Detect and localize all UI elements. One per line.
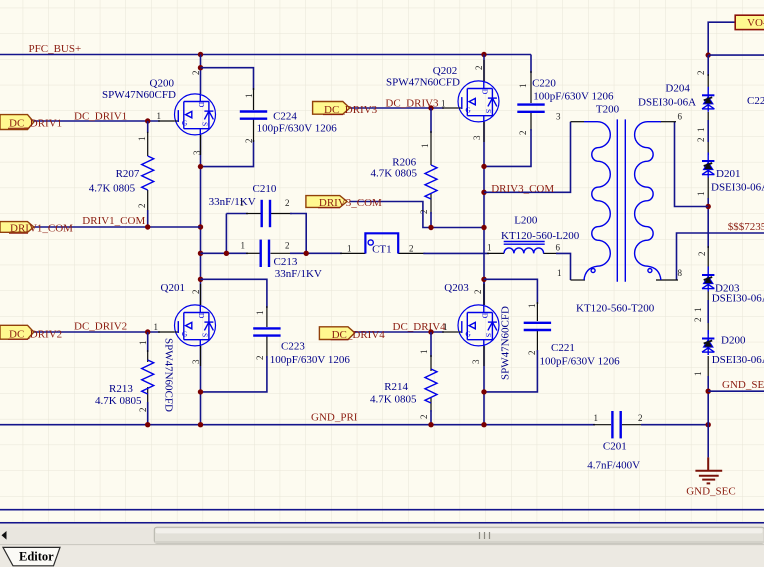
pin R207.2 lead (147, 190, 149, 212)
wire C221 top branch (484, 279, 537, 304)
pin D203.1 / D200.2 leads (707, 291, 709, 334)
wire R214 top stub (430, 332, 432, 357)
wire Q203 drain column (483, 279, 485, 305)
pin C224.2 lead (253, 119, 255, 142)
T200 primary polarity dot (591, 269, 595, 273)
svg-text:L200: L200 (514, 215, 538, 227)
svg-text:1: 1 (696, 192, 706, 197)
svg-text:2: 2 (696, 71, 706, 76)
svg-text:2: 2 (244, 139, 254, 144)
svg-text:DSEI30-06A: DSEI30-06A (712, 354, 764, 366)
wire VO- port link (708, 22, 735, 55)
pin T200.3 lead (571, 121, 585, 123)
pin R207.1 lead (147, 132, 149, 156)
svg-text:2: 2 (191, 71, 201, 76)
svg-text:1: 1 (441, 99, 446, 109)
svg-text:1: 1 (137, 137, 147, 142)
svg-text:1: 1 (420, 144, 430, 149)
resistor R213 (95, 341, 154, 413)
pin R213.1 lead (147, 350, 149, 362)
wire L200 to T200 pin1 (556, 253, 571, 280)
svg-text:DRIV3_COM: DRIV3_COM (491, 183, 554, 195)
wire DC_DRIV2 from port to gate (34, 331, 161, 333)
svg-text:2: 2 (518, 131, 528, 136)
svg-text:2: 2 (473, 290, 483, 295)
svg-text:DSEI30-06A: DSEI30-06A (638, 97, 696, 109)
wire C210 row (226, 213, 248, 215)
svg-text:3: 3 (556, 112, 561, 122)
wire D200 to GND_SEC (707, 376, 709, 457)
svg-text:2: 2 (285, 241, 290, 251)
svg-text:DC_DRIV1: DC_DRIV1 (9, 118, 62, 130)
pin C223.1 lead (266, 306, 268, 327)
pin D201.1 lead (707, 177, 709, 200)
svg-text:C224: C224 (273, 111, 297, 123)
svg-text:1: 1 (594, 413, 599, 423)
svg-text:1: 1 (557, 268, 562, 278)
junction midpoint / DRIV1_COM (198, 224, 203, 229)
svg-text:3: 3 (191, 359, 201, 364)
svg-text:3: 3 (192, 150, 202, 155)
wire CT1 to L200 (423, 252, 489, 254)
wire Q200 source to midpoint column (200, 134, 202, 279)
inductor L200 (487, 215, 580, 254)
svg-text:6: 6 (556, 243, 561, 253)
pin C213.1 lead (246, 252, 260, 254)
svg-text:C223: C223 (281, 341, 305, 353)
wire R206 bottom stub (430, 212, 432, 228)
pin Q202.G lead (442, 107, 458, 109)
svg-text:100pF/630V 1206: 100pF/630V 1206 (533, 90, 614, 102)
wire R207 top stub (147, 121, 149, 133)
svg-text:DRIV1_COM: DRIV1_COM (10, 223, 73, 235)
wire $$$ net from T200.8 (677, 233, 764, 280)
pin CT1.1 lead (340, 252, 365, 254)
sheet bottom border (0, 510, 764, 567)
junction C213 / C210 right (304, 251, 309, 256)
svg-text:DC_DRIV4: DC_DRIV4 (332, 329, 386, 341)
pin Q201.2 lead (200, 284, 202, 305)
pin R213.2 lead (147, 387, 149, 404)
pin Q203.2 lead (483, 284, 485, 305)
svg-text:Q201: Q201 (161, 282, 185, 294)
svg-text:100pF/630V 1206: 100pF/630V 1206 (270, 354, 351, 366)
svg-text:T200: T200 (596, 104, 620, 116)
svg-text:DSEI30-06A: DSEI30-06A (712, 292, 764, 304)
junction Q200 drain / C224 branch (198, 65, 203, 70)
junction PFC_BUS+/Q200 drain (198, 52, 203, 57)
pin T200.8 lead (656, 279, 678, 281)
wire C224 bottom branch (201, 140, 254, 167)
svg-text:DRIV3_COM: DRIV3_COM (319, 197, 382, 209)
wire Q201 source column (200, 346, 202, 425)
wire DC_DRIV4 from port to gate (355, 331, 444, 333)
svg-text:6: 6 (678, 112, 683, 122)
svg-text:DRIV1_COM: DRIV1_COM (82, 215, 145, 227)
ground GND_SEC symbol (686, 457, 736, 497)
junction GND_SEC / right label wire (706, 389, 711, 394)
svg-text:33nF/1KV: 33nF/1KV (209, 196, 256, 208)
port DRIV1_COM (0, 222, 73, 235)
wire R213 top stub (147, 332, 149, 352)
svg-text:33nF/1KV: 33nF/1KV (275, 268, 322, 280)
pin T200.6 lead (660, 121, 676, 123)
capacitor C224 (240, 94, 337, 144)
wire diode string upper (707, 55, 709, 76)
svg-text:D204: D204 (665, 83, 690, 95)
pin C224.1 lead (253, 88, 255, 110)
svg-text:2: 2 (138, 408, 148, 413)
svg-text:DC_DRIV4: DC_DRIV4 (393, 321, 447, 333)
pin C210.1 lead (246, 213, 261, 215)
diode D203 (702, 267, 764, 305)
junction DC_DRIV4 / R214 (428, 329, 433, 334)
diode D200 (702, 330, 764, 366)
svg-text:PFC_BUS+: PFC_BUS+ (29, 43, 82, 55)
port DRIV3_COM (306, 196, 382, 209)
capacitor C223 (253, 311, 350, 367)
svg-text:KT120-560-L200: KT120-560-L200 (501, 230, 580, 242)
pin D203.2 lead (707, 246, 709, 270)
pin L200.1 lead (487, 252, 504, 254)
resistor R207 (89, 137, 154, 209)
wire T200.6 link (675, 122, 709, 207)
wire DC_DRIV1 from port to gate (34, 120, 161, 122)
wire R206 top stub (430, 108, 432, 133)
port DC_DRIV3 (313, 102, 378, 116)
wire GND_SEC label run (708, 390, 764, 392)
svg-text:2: 2 (638, 413, 643, 423)
capacitor C213 (241, 240, 322, 280)
svg-text:Q200: Q200 (150, 78, 175, 90)
port DC_DRIV2 (0, 325, 62, 340)
pin C210.2 lead (271, 213, 292, 215)
svg-text:1: 1 (527, 304, 537, 309)
wire C210 left lead down (225, 214, 227, 254)
pin Q203.G lead (442, 331, 458, 333)
wire R213 bottom stub (147, 402, 149, 425)
svg-text:3: 3 (472, 135, 482, 140)
Editor tab (3, 547, 60, 565)
diode D201 (702, 153, 764, 194)
pin R206.2 lead (430, 193, 432, 214)
svg-text:2: 2 (419, 415, 429, 420)
svg-text:2: 2 (527, 351, 537, 356)
pin R214.1 lead (430, 355, 432, 371)
svg-text:1: 1 (693, 372, 703, 377)
svg-text:R214: R214 (384, 381, 408, 393)
svg-text:2: 2 (696, 138, 706, 143)
resistor R206 (371, 144, 438, 215)
wire C224 top branch (201, 68, 254, 90)
wire Q201 drain column (200, 279, 202, 305)
svg-text:3: 3 (471, 359, 481, 364)
junction GND_PRI / Q201 (198, 422, 203, 427)
svg-text:2: 2 (285, 198, 290, 208)
wire R214 bottom stub (430, 410, 432, 425)
svg-text:SPW47N60CFD: SPW47N60CFD (102, 89, 176, 101)
wire GND_PRI row (0, 424, 595, 426)
svg-text:VO-: VO- (747, 17, 764, 29)
svg-text:2: 2 (474, 66, 484, 71)
wire DRIV1_COM row (34, 226, 201, 228)
svg-text:DC_DRIV2: DC_DRIV2 (9, 329, 62, 341)
svg-text:1: 1 (255, 311, 265, 316)
pin Q202.3 lead (483, 122, 485, 142)
transistor Q200 (102, 71, 216, 156)
pin L200.6 lead (543, 252, 558, 254)
svg-text:1: 1 (154, 322, 159, 332)
svg-text:DSEI30-06A: DSEI30-06A (711, 182, 764, 194)
wire C213 row (201, 252, 249, 254)
svg-text:C213: C213 (274, 256, 298, 268)
junction DRIV1_COM / R207 (145, 224, 150, 229)
junction GND_PRI / R214 (428, 422, 433, 427)
svg-text:4.7K 0805: 4.7K 0805 (89, 183, 136, 195)
wire DRIV3_COM to T200 pin3 (484, 122, 571, 193)
pin Q200.G lead (158, 120, 175, 122)
svg-text:1: 1 (138, 341, 148, 346)
svg-text:C221: C221 (551, 342, 575, 354)
port VO- (735, 15, 764, 29)
svg-text:DC_DRIV1: DC_DRIV1 (74, 111, 127, 123)
svg-text:GND_PRI: GND_PRI (311, 412, 358, 424)
svg-text:2: 2 (419, 210, 429, 215)
svg-text:1: 1 (443, 322, 448, 332)
T200 secondary winding (635, 122, 661, 280)
port DC_DRIV1 (0, 115, 62, 130)
capacitor C221 (524, 304, 620, 368)
capacitor C210 (209, 183, 290, 227)
svg-text:D200: D200 (721, 335, 746, 347)
svg-text:CT1: CT1 (372, 244, 392, 256)
svg-text:C220: C220 (532, 78, 556, 90)
junction DRIV3_COM / R206 bottom (428, 225, 433, 230)
pin C221.2 lead (536, 331, 538, 352)
wire C223 top branch (201, 279, 267, 308)
svg-text:SPW47N60CFD: SPW47N60CFD (500, 306, 512, 380)
junction DC_DRIV3 / R206 (428, 105, 433, 110)
wire between D203 and D200 (707, 300, 709, 323)
svg-text:1: 1 (347, 244, 352, 254)
wire C220 top lead from bus (530, 55, 532, 74)
pin C220.1 lead (530, 71, 532, 103)
capacitor C201 (587, 411, 642, 472)
wire Q203 source column (483, 346, 485, 425)
wire Q202 drain column (483, 55, 485, 82)
svg-text:2: 2 (137, 204, 147, 209)
transformer T200 (556, 104, 683, 315)
svg-text:1: 1 (518, 84, 528, 89)
svg-text:4.7K 0805: 4.7K 0805 (371, 168, 418, 180)
wire PFC_BUS+ horizontal bus (0, 54, 531, 56)
svg-text:1: 1 (696, 128, 706, 133)
pin CT1.2 lead (398, 252, 425, 254)
junction C213 / C210 left (224, 251, 229, 256)
pin Q201.G lead (158, 331, 175, 333)
junction Q203 source / C221 (481, 389, 486, 394)
svg-text:100pF/630V 1206: 100pF/630V 1206 (540, 356, 621, 368)
svg-text:Q202: Q202 (433, 65, 457, 77)
svg-text:1: 1 (487, 243, 492, 253)
pin C221.1 lead (536, 302, 538, 321)
svg-text:4.7K 0805: 4.7K 0805 (370, 394, 417, 406)
wire C201 to GND_SEC column (641, 424, 708, 426)
svg-text:KT120-560-T200: KT120-560-T200 (576, 303, 655, 315)
svg-text:R213: R213 (109, 383, 133, 395)
capacitor C220 (517, 78, 614, 135)
pin Q203.3 lead (483, 346, 485, 366)
svg-text:1: 1 (693, 308, 703, 313)
svg-text:C22: C22 (747, 95, 764, 107)
svg-text:4.7nF/400V: 4.7nF/400V (587, 460, 640, 472)
T200 core (616, 119, 618, 281)
pin C201.2 lead (622, 424, 643, 426)
svg-text:1: 1 (240, 198, 245, 208)
pin D200.1 lead (707, 356, 709, 378)
svg-text:DC_DRIV2: DC_DRIV2 (74, 321, 127, 333)
svg-text:2: 2 (191, 290, 201, 295)
junction Q201 source / C223 (198, 389, 203, 394)
pin C223.2 lead (266, 336, 268, 358)
junction Q200 source / C224 (198, 164, 203, 169)
pin R206.1 lead (430, 131, 432, 165)
svg-text:R207: R207 (116, 168, 140, 180)
wire node A to T200.6 (707, 198, 709, 248)
svg-text:C210: C210 (253, 183, 277, 195)
svg-text:DC_DRIV3: DC_DRIV3 (385, 98, 439, 110)
pin D204.1 / D201.2 leads (707, 112, 709, 155)
svg-text:8: 8 (678, 268, 683, 278)
svg-text:1: 1 (157, 111, 162, 121)
wire C221 bottom branch (484, 350, 537, 392)
svg-text:2: 2 (255, 356, 265, 361)
junction Q201 drain / C223 branch (198, 277, 203, 282)
pin Q200.3 lead (200, 135, 202, 155)
horizontal scrollbar (0, 527, 764, 544)
pin T200.1 lead (571, 279, 586, 281)
wire C210 right lead (290, 214, 306, 254)
svg-text:1: 1 (244, 94, 254, 99)
junction VO- node (706, 52, 711, 57)
junction GND_PRI / Q203 (481, 422, 486, 427)
transistor Q201 (161, 282, 216, 412)
svg-text:2: 2 (697, 252, 707, 257)
svg-text:4.7K 0805: 4.7K 0805 (95, 395, 142, 407)
wire DC_DRIV3 from port to gate (350, 107, 444, 109)
junction PFC_BUS+/Q202 drain (481, 52, 486, 57)
pin D204.2 lead (707, 74, 709, 90)
pin Q201.3 lead (200, 346, 202, 366)
pin C220.2 lead (530, 112, 532, 131)
svg-text:2: 2 (693, 318, 703, 323)
pin Q202.2 lead (483, 60, 485, 81)
transistor Q203 (444, 282, 511, 380)
wire Q202 source column down to Q203 (483, 122, 485, 306)
wire Q200 drain column (200, 55, 202, 95)
wire C220 bottom to Q202 source (484, 129, 531, 166)
pin C213.2 lead (271, 252, 293, 254)
wire between D204 and D201 (707, 120, 709, 142)
wire DRIV3_COM port run (350, 202, 484, 228)
svg-text:C201: C201 (603, 441, 627, 453)
wire C223 bottom branch (201, 356, 267, 392)
svg-text:SPW47N60CFD: SPW47N60CFD (163, 338, 175, 412)
T200 primary winding (584, 122, 610, 280)
svg-text:$$$7235: $$$7235 (728, 221, 764, 233)
junction DC_DRIV2 / R213 (145, 329, 150, 334)
junction GND column / C201 row (706, 422, 711, 427)
transistor Q202 (386, 65, 499, 140)
svg-text:100pF/630V 1206: 100pF/630V 1206 (257, 123, 338, 135)
svg-text:Q203: Q203 (444, 282, 469, 294)
svg-text:1: 1 (419, 350, 429, 355)
wire VO- to right edge (708, 54, 764, 56)
junction Q202 source / T200.3 link (481, 190, 486, 195)
wire R207 bottom stub (147, 210, 149, 227)
diode D204 (638, 83, 714, 112)
T200 secondary polarity dot (648, 269, 652, 273)
junction GND_PRI / R213 (145, 422, 150, 427)
junction diode string / T200.6 (706, 204, 711, 209)
svg-text:2: 2 (409, 244, 414, 254)
current transformer CT1 (347, 233, 414, 255)
pin C201.1 lead (593, 424, 611, 426)
port DC_DRIV4 (319, 327, 385, 341)
junction DC_DRIV1 / R207 (145, 118, 150, 123)
junction Q202 source / C220 (481, 164, 486, 169)
junction midpoint / C213 row (198, 251, 203, 256)
junction DRIV3_COM / Q202-Q203 column (481, 225, 486, 230)
svg-text:SPW47N60CFD: SPW47N60CFD (386, 76, 460, 88)
svg-text:GND_SEC: GND_SEC (722, 379, 764, 391)
junction Q203 drain / C221 branch (481, 277, 486, 282)
pin R214.2 lead (430, 397, 432, 412)
svg-text:1: 1 (241, 241, 246, 251)
svg-text:D201: D201 (716, 168, 740, 180)
svg-text:GND_SEC: GND_SEC (686, 486, 736, 498)
svg-text:Editor: Editor (19, 550, 54, 564)
wire C213 to CT1 (290, 252, 342, 254)
svg-text:DC_DRIV3: DC_DRIV3 (324, 104, 378, 116)
resistor R214 (370, 350, 437, 420)
